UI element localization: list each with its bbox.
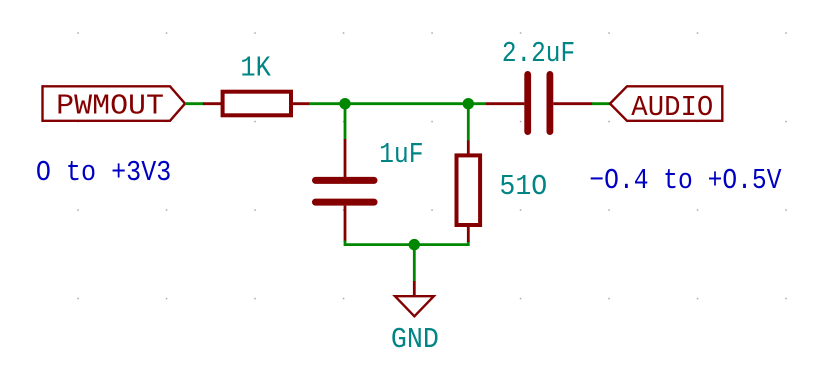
resistor R2 body [457, 155, 481, 225]
capacitor C1 pin bottom [344, 206, 347, 242]
svg-text:PWMOUT: PWMOUT [56, 90, 164, 123]
capacitor C2 plates (2.2uF) [528, 74, 550, 131]
label PWMOUT flag [43, 86, 186, 121]
value 2.2uF [502, 37, 575, 70]
capacitor C1 pin top [344, 139, 347, 177]
resistor R1 body [223, 92, 291, 116]
wire node B down to R2 [467, 104, 470, 141]
ground symbol GND [395, 296, 434, 316]
wire node A down to C1 [344, 104, 347, 140]
ground pin [413, 281, 416, 295]
svg-text:O to +3V3: O to +3V3 [36, 156, 171, 189]
resistor R1 pin left [203, 102, 222, 105]
value 1K [240, 52, 271, 85]
resistor R2 pin top [467, 141, 470, 156]
label AUDIO flag [610, 86, 722, 121]
svg-text:51O: 51O [499, 170, 547, 203]
label PWMOUT text [56, 90, 164, 123]
resistor R1 pin right [291, 102, 310, 105]
value 510 [499, 170, 547, 203]
value 1uF [379, 138, 424, 171]
note -0.4 to +0.5V [589, 164, 782, 197]
junction node A (top of C1) [339, 98, 350, 109]
wire C1 bottom to R2 bottom [345, 241, 468, 245]
grid dots [77, 32, 787, 299]
capacitor C1 plates (1uF) [316, 180, 375, 202]
junction node GND [409, 239, 420, 250]
label AUDIO text [631, 91, 713, 124]
svg-text:1uF: 1uF [379, 138, 424, 171]
ground label GND [391, 323, 439, 356]
wire C2 to AUDIO [592, 102, 610, 105]
wire R1 to C2 (main horizontal) [309, 102, 487, 105]
junction node B (top of R2) [463, 98, 474, 109]
note 0 to +3V3 [36, 156, 171, 189]
wire node GND down [413, 245, 416, 282]
wire PWMOUT to R1 [185, 102, 204, 105]
capacitor C2 pin right [553, 102, 592, 105]
svg-text:AUDIO: AUDIO [631, 91, 713, 124]
svg-text:1K: 1K [240, 52, 271, 85]
svg-text:2.2uF: 2.2uF [502, 37, 575, 70]
svg-text:−O.4 to +O.5V: −O.4 to +O.5V [589, 164, 782, 197]
capacitor C2 pin left [486, 102, 524, 105]
resistor R2 pin bottom [467, 227, 470, 243]
svg-text:GND: GND [391, 323, 439, 356]
